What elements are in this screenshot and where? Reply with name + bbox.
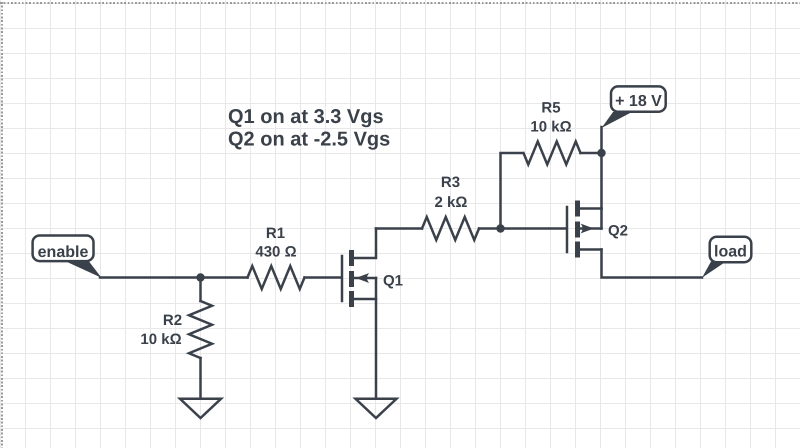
- transistor Q2 gate bar: [566, 207, 569, 252]
- wire Q1 body lead: [354, 277, 376, 280]
- +18V callout box: [611, 86, 666, 111]
- wire rail node to Q2 source: [600, 153, 603, 209]
- enable callout pointer: [66, 262, 102, 278]
- transistor Q1 gate bar: [341, 256, 344, 301]
- svg-text:Q1 on at 3.3 Vgs: Q1 on at 3.3 Vgs: [228, 106, 384, 128]
- enable callout box: [33, 236, 94, 262]
- svg-text:R1: R1: [266, 225, 285, 242]
- wire Q1 drain lead: [354, 229, 376, 259]
- load callout box: [710, 237, 752, 263]
- resistor R5: [524, 142, 581, 165]
- node junction dot at R2: [196, 273, 204, 281]
- wire Q2 drain to load: [602, 250, 703, 278]
- dotted page border left: [1, 2, 3, 448]
- svg-text:+ 18 V: + 18 V: [615, 93, 662, 110]
- svg-text:Q1: Q1: [383, 272, 403, 289]
- resistor R3: [422, 217, 479, 240]
- wire Q1 drain to R3: [376, 227, 422, 230]
- wire Q2 drain lead: [580, 248, 602, 251]
- svg-text:Q2: Q2: [608, 222, 628, 239]
- wire R1 to Q1 gate: [305, 276, 342, 279]
- wire Q2 source lead: [580, 207, 602, 210]
- dotted page border top: [0, 2, 800, 4]
- svg-text:10 kΩ: 10 kΩ: [140, 331, 181, 348]
- wire Q1 source to ground: [375, 278, 378, 398]
- load callout pointer: [702, 262, 726, 278]
- svg-text:load: load: [714, 243, 747, 260]
- wire node to R5: [501, 153, 523, 229]
- wire R3 to Q2 gate: [479, 227, 566, 230]
- wire Q2 body lead: [580, 227, 602, 230]
- +18V callout pointer: [602, 112, 633, 128]
- ground symbol for Q1: [356, 399, 397, 418]
- ground symbol for R2: [180, 399, 221, 418]
- svg-text:10 kΩ: 10 kΩ: [530, 118, 571, 135]
- wire R2 to ground: [199, 358, 202, 398]
- transistor Q2 channel dashes: [575, 201, 580, 258]
- wire R5 to rail node: [581, 152, 602, 155]
- resistor R2: [189, 301, 212, 358]
- transistor Q1 body arrow: [356, 273, 369, 283]
- transistor Q1 channel dashes: [349, 250, 354, 307]
- svg-text:R2: R2: [163, 312, 182, 329]
- node junction dot at rail: [597, 149, 605, 157]
- wire Q1 source lead: [354, 298, 376, 301]
- wire node to R2: [199, 278, 202, 302]
- svg-text:enable: enable: [38, 244, 89, 261]
- wire Q2 body tie to source: [600, 209, 603, 229]
- svg-text:R5: R5: [541, 100, 560, 117]
- svg-text:Q2 on at -2.5 Vgs: Q2 on at -2.5 Vgs: [228, 129, 390, 151]
- node junction dot at R3/R5: [496, 224, 504, 232]
- resistor R1: [248, 266, 305, 289]
- wire enable to R1: [100, 276, 248, 279]
- transistor Q2 body arrow: [580, 224, 593, 234]
- svg-text:2 kΩ: 2 kΩ: [435, 194, 468, 211]
- svg-text:430 Ω: 430 Ω: [255, 243, 296, 260]
- svg-text:R3: R3: [441, 174, 460, 191]
- wire rail node to +18V callout: [600, 127, 603, 153]
